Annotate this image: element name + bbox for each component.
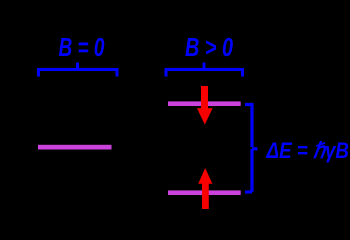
spin-up red arrow <box>198 168 212 209</box>
brace over B = 0 column <box>39 63 118 77</box>
brace over B > 0 column <box>166 63 243 77</box>
svg-text:ΔE = ℏγB: ΔE = ℏγB <box>266 138 349 163</box>
right curly brace for energy gap <box>245 105 258 193</box>
energy level upper (spin down) <box>168 101 241 106</box>
svg-text:B = 0: B = 0 <box>59 32 105 62</box>
spin-down red arrow <box>197 86 213 125</box>
svg-text:B > 0: B > 0 <box>185 32 233 62</box>
energy level B=0 (middle left) <box>38 145 112 150</box>
energy level lower (spin up) <box>168 190 241 195</box>
